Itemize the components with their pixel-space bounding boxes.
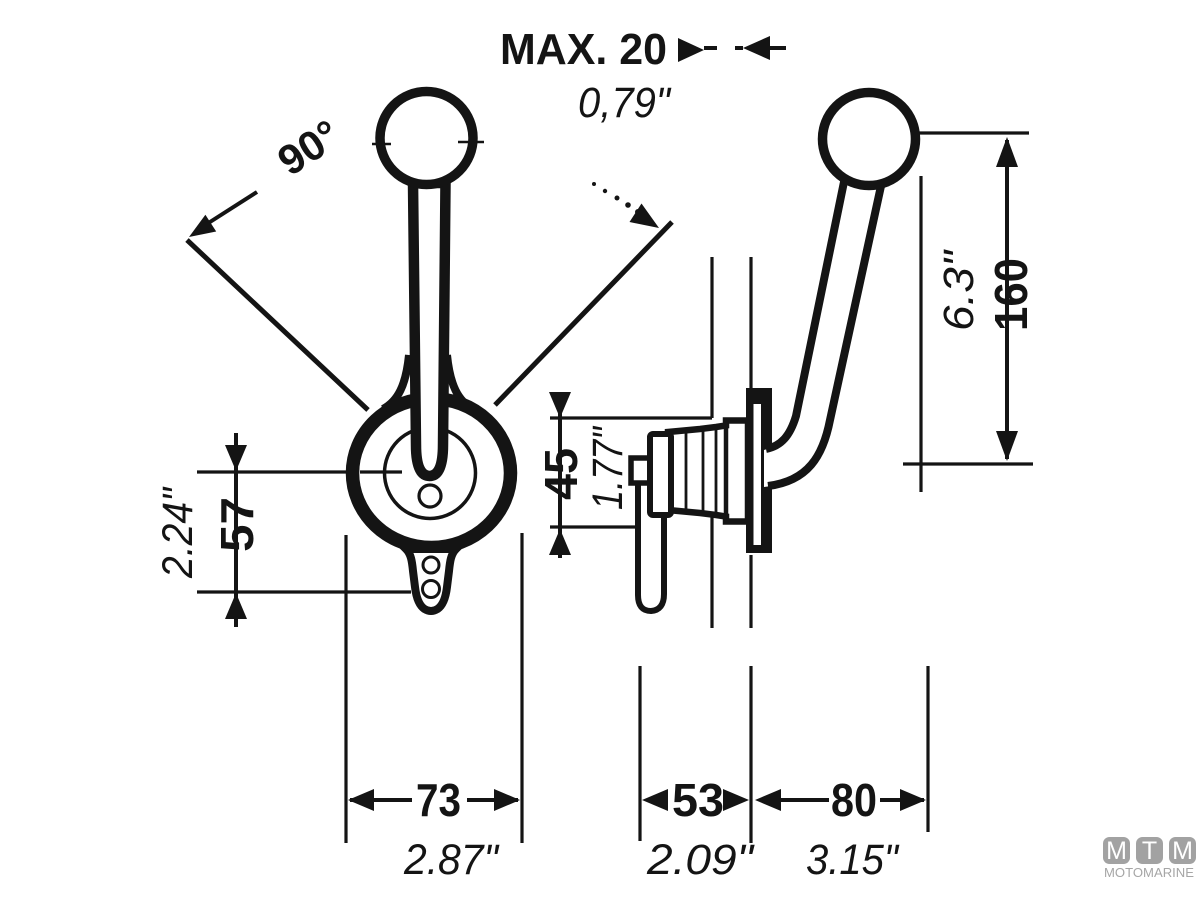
svg-text:57: 57	[211, 497, 263, 552]
svg-text:M: M	[1172, 837, 1193, 865]
svg-text:2.87": 2.87"	[403, 836, 500, 884]
svg-text:3.15": 3.15"	[806, 836, 900, 884]
svg-text:M: M	[1106, 837, 1127, 865]
svg-text:T: T	[1142, 837, 1157, 865]
svg-text:6.3": 6.3"	[935, 249, 983, 331]
svg-text:160: 160	[985, 258, 1037, 331]
svg-text:0,79": 0,79"	[578, 79, 672, 127]
svg-text:53: 53	[672, 774, 724, 826]
svg-text:MAX. 20: MAX. 20	[500, 25, 667, 74]
svg-text:2.09": 2.09"	[646, 836, 755, 884]
svg-text:45: 45	[535, 448, 587, 500]
svg-text:73: 73	[416, 774, 461, 826]
svg-text:MOTOMARINE: MOTOMARINE	[1104, 865, 1194, 880]
svg-text:1.77": 1.77"	[584, 426, 632, 510]
svg-text:80: 80	[831, 774, 877, 826]
svg-text:2.24": 2.24"	[154, 486, 202, 578]
